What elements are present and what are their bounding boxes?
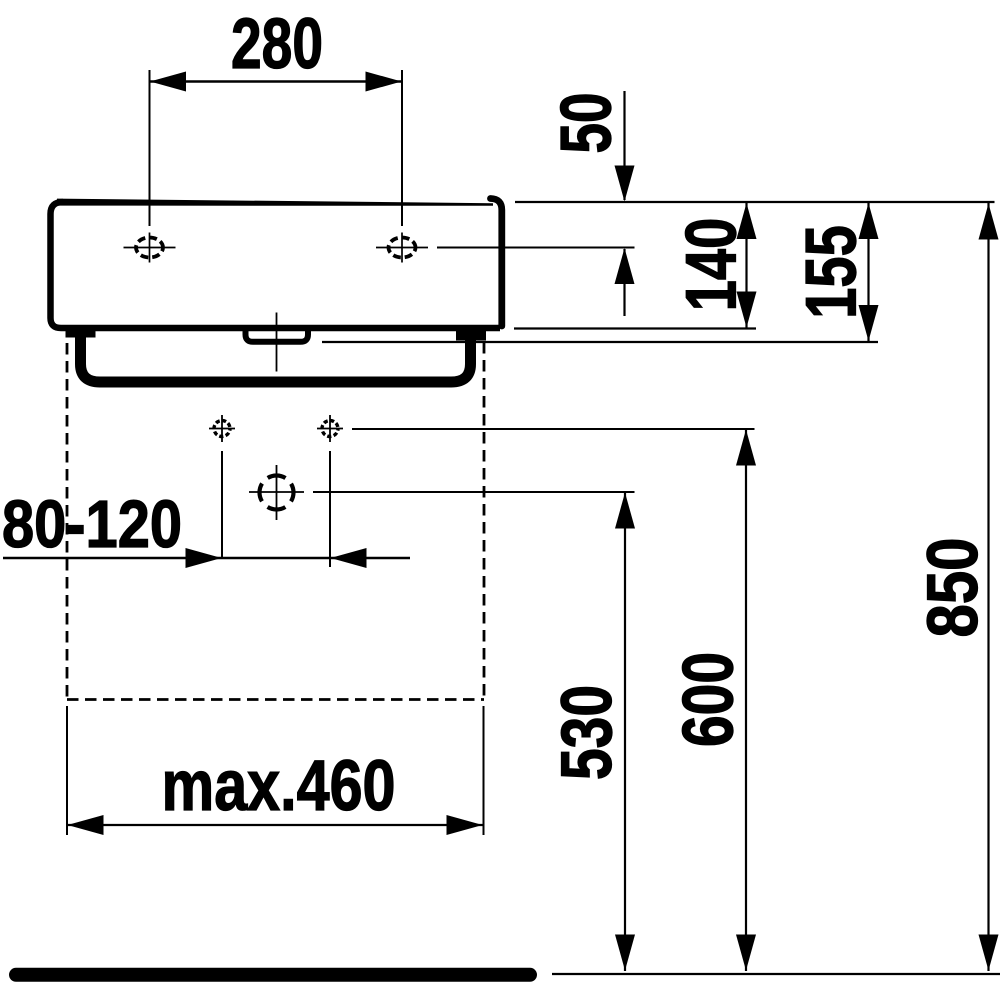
svg-text:max.460: max.460 <box>162 747 396 826</box>
dim max460 extension right <box>483 706 485 835</box>
mounting bracket U rail <box>81 334 471 382</box>
dim 600 arrow down <box>736 935 756 971</box>
svg-text:140: 140 <box>673 218 752 312</box>
dim 155 arrow down <box>859 305 879 341</box>
bracket bottom reference line <box>322 341 878 343</box>
svg-text:850: 850 <box>914 538 993 638</box>
top reference line <box>515 201 995 203</box>
dim 280 extension line right <box>401 70 403 226</box>
wall hole right drop line <box>329 451 331 567</box>
install zone dashed left line <box>66 343 69 700</box>
hole level reference line <box>437 247 635 249</box>
floor thick bar <box>16 968 530 982</box>
wall hole right crosshair <box>317 415 343 442</box>
dim 50 upper segment <box>623 91 625 200</box>
svg-text:155: 155 <box>793 225 872 319</box>
right mounting hole dashed ellipse <box>389 238 416 258</box>
bracket left tab <box>66 327 96 338</box>
dim 80-120 arrow right <box>186 548 222 568</box>
dim max460 arrow left <box>68 815 104 835</box>
faucet supply hole crosshair <box>249 465 304 520</box>
svg-text:530: 530 <box>548 685 627 780</box>
dim 530 arrow down <box>615 935 635 971</box>
dim 530 arrow up <box>615 493 635 529</box>
dim 50 arrow down <box>615 166 635 202</box>
dim 530 line <box>624 492 626 971</box>
dim 140 arrow down <box>737 292 757 328</box>
dim 280 arrow left <box>150 72 186 92</box>
bracket right tab <box>456 329 486 341</box>
basin right edge with rim hook <box>491 199 502 327</box>
svg-text:600: 600 <box>670 652 749 747</box>
wall hole left dashed circle <box>214 421 230 437</box>
dim max460 arrow right <box>447 815 483 835</box>
basin top rim tapered edge <box>57 199 493 206</box>
dim 280 arrow right <box>366 72 402 92</box>
install zone dashed right line <box>483 342 486 700</box>
basin outline (left/bottom edges) <box>51 202 501 328</box>
dim 50 arrow up <box>615 248 635 284</box>
dim 280 line <box>150 80 403 82</box>
wall hole right dashed circle <box>322 421 338 437</box>
svg-text:280: 280 <box>231 5 323 84</box>
wall hole left crosshair <box>209 415 235 442</box>
dim 140 arrow up <box>737 203 757 239</box>
right mounting hole crosshair <box>376 233 428 263</box>
svg-text:50: 50 <box>548 93 627 154</box>
drain boss below basin <box>246 328 309 342</box>
dim 600 line <box>745 430 747 972</box>
basin bottom reference line <box>514 327 756 329</box>
wall hole left drop line <box>221 451 223 559</box>
floor thin reference line <box>552 973 1000 975</box>
wall hole level reference line <box>352 428 755 430</box>
drain centerline <box>276 313 278 372</box>
dim 50 lower segment <box>623 249 625 316</box>
dim 600 arrow up <box>736 430 756 466</box>
dim 80-120 arrow left <box>331 548 367 568</box>
dim 850 line <box>987 203 989 971</box>
faucet supply hole dashed circle <box>260 476 294 510</box>
dim 80-120 line <box>3 557 410 559</box>
dim 155 arrow up <box>859 203 879 239</box>
left mounting hole crosshair <box>124 233 176 263</box>
install zone dashed bottom line <box>67 698 484 701</box>
dim 155 line <box>867 203 869 341</box>
faucet hole level reference line <box>313 491 635 493</box>
dim 280 extension line left <box>149 70 151 226</box>
dim max460 extension left <box>66 706 68 835</box>
left mounting hole dashed ellipse <box>136 238 163 258</box>
dim max460 line <box>67 824 483 826</box>
dim 140 line <box>745 203 747 328</box>
dim 850 arrow up <box>979 204 999 240</box>
dim 850 arrow down <box>979 935 999 971</box>
svg-text:80-120: 80-120 <box>2 487 182 562</box>
